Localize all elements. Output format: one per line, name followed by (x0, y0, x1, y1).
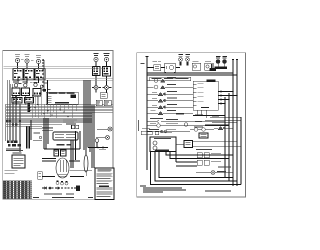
convection fan row (147, 129, 190, 133)
terminal strip box page2 (150, 77, 191, 81)
wire T1-T2 link (147, 67, 180, 69)
relay boxes right top (96, 100, 111, 106)
transformer T1 (153, 61, 162, 70)
wire left bus page2 (146, 57, 149, 171)
terminal strip TS2 (215, 67, 228, 70)
motor terminals T1 T2 T3 (56, 181, 68, 185)
page 2 border frame (137, 53, 246, 197)
wire top bus page2 (147, 73, 237, 75)
junction dots U2 (224, 91, 237, 104)
oven light L4 (96, 136, 110, 140)
wire lower bundle (42, 128, 84, 177)
legend table text ink (4, 181, 31, 198)
wire risers mid-left (27, 120, 32, 149)
electronic oven control U2 (193, 80, 218, 110)
wire L1 feeder bundle left edge (6, 80, 21, 152)
infinite switch block B2 (22, 82, 30, 96)
latch switch row SW-E (147, 98, 193, 103)
note text page2 (140, 185, 186, 192)
wire loop D top runs (166, 152, 233, 167)
wire right bus V4 (228, 93, 230, 181)
caption page2 (205, 190, 231, 191)
wire row under relay (44, 118, 80, 168)
wire loop B (155, 152, 237, 182)
wire bus mid rows (6, 105, 113, 119)
label mid bottom (218, 166, 231, 169)
relay box K2 (25, 98, 34, 104)
terminal block TB1 (27, 103, 30, 112)
notes box page1 (95, 168, 114, 200)
wire lower crossing (70, 170, 93, 172)
relay block K5 (199, 133, 208, 138)
oven lamp LA1 (92, 86, 101, 93)
page 1 border frame (3, 51, 113, 200)
sensor row SW-G (147, 110, 193, 115)
terminal strip TS1 (210, 68, 217, 71)
wire rows below U2 (193, 116, 241, 126)
wire right bus V2 (236, 60, 238, 187)
junction dots bus (29, 104, 68, 117)
oven door band (193, 141, 242, 150)
wire bus vertical taps (32, 95, 76, 118)
wire dashed service loop (42, 187, 78, 189)
oven lamp L5 (196, 171, 233, 175)
fuse F1 (84, 148, 88, 177)
label rows above table (5, 170, 18, 174)
row label SW-G left (151, 109, 156, 112)
door switch row SW-F (147, 104, 193, 109)
wire riser bundle center (42, 59, 45, 92)
top row small boxes mid band (141, 128, 172, 135)
connector contacts lower-left (6, 120, 21, 126)
indicator lamp P2 (185, 54, 190, 66)
oven sensor RTD row (147, 118, 225, 123)
switch S7 (54, 150, 59, 156)
broil element row SW-C (147, 84, 193, 89)
buzzer BZ2 (222, 56, 227, 67)
probe jack J1 (95, 139, 99, 148)
lamp switch box S6 (100, 93, 107, 99)
wire right bus V3 (240, 117, 242, 185)
U2 right pin stubs (218, 91, 237, 105)
wire right bus V5 (224, 97, 226, 178)
switch box S2 (205, 61, 214, 70)
surface element E4 (94, 53, 99, 67)
latch motor relay board K3 (53, 132, 78, 140)
wire loop A (151, 152, 242, 185)
lamp row mid page2 (190, 127, 214, 132)
electronic oven control U1 (46, 92, 78, 104)
surface switch SW5 (103, 67, 111, 86)
page margin text (138, 120, 139, 131)
meat probe row (147, 123, 229, 127)
oven selector switch B3 (33, 80, 48, 104)
latch switch cluster (33, 133, 42, 140)
surface switch SW1 (13, 69, 23, 81)
wire right risers (84, 80, 94, 168)
door switch S9 (38, 172, 43, 180)
oven light L3 (97, 127, 112, 131)
oven lamp LA2 (102, 86, 111, 93)
wire right bus V1 (232, 60, 234, 187)
connector P2 label (57, 144, 72, 145)
door lock motor M1 (56, 158, 69, 178)
indicator lamp P1 (178, 54, 183, 66)
wire drops from switch blocks (16, 96, 37, 105)
buzzer BZ1 (216, 56, 221, 67)
wire bus top A (4, 66, 103, 68)
door switch DS1 (197, 153, 221, 158)
notes box text ink (97, 169, 113, 197)
control housing box page2 (150, 137, 176, 152)
surface element E1 (15, 54, 20, 70)
bake element row SW-B (147, 78, 176, 83)
timer text cluster (63, 120, 77, 125)
plug box P5 (176, 141, 193, 148)
relay box K1 (12, 98, 22, 104)
caption page1 (33, 197, 93, 198)
connector header row P9 (6, 141, 23, 152)
surface switch SW4 (93, 67, 101, 86)
clock connector boxes (72, 125, 79, 128)
switch S8 (61, 150, 67, 156)
bottom caption small text (44, 193, 74, 196)
surface element E2 (25, 54, 30, 69)
wire switch-to-lamp drops (16, 76, 39, 97)
surface element E3 (36, 55, 41, 70)
infinite switch block B1 (12, 82, 22, 96)
surface switch SW2 (24, 69, 34, 81)
row labels below U2 (176, 114, 219, 122)
wire loop C (159, 152, 233, 178)
door latch box K4 (12, 153, 25, 168)
U2 bottom stubs (197, 110, 206, 118)
door switch DS2 (197, 160, 221, 165)
wire bus lower rows (6, 120, 93, 128)
wire sensor row (88, 147, 108, 151)
switch box S1 (192, 61, 201, 70)
latch switch row SW-D (147, 91, 193, 96)
timer motor box T2 (165, 63, 176, 73)
wiring legend table (3, 181, 32, 199)
misc labels top-left (21, 59, 51, 90)
label L1 near border (141, 62, 145, 65)
surface switch SW3 (35, 69, 45, 81)
probe receptacle circle (164, 123, 188, 133)
wire bus top B (20, 77, 113, 81)
switch SW-H (214, 127, 233, 130)
surface element E5 (104, 53, 110, 67)
terminal board TB2 (76, 185, 80, 191)
